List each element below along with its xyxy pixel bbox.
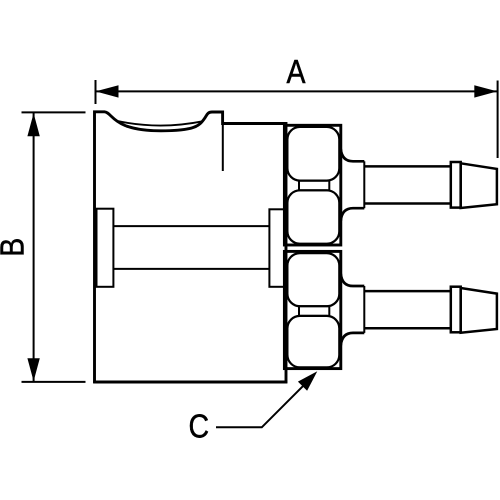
barb cone 2 — [461, 288, 497, 333]
stem 2 top line — [364, 290, 451, 293]
internal channel left counterbore — [97, 209, 114, 287]
svg-text:C: C — [189, 407, 210, 445]
dimension A line — [96, 90, 497, 92]
leader C line — [216, 386, 304, 428]
leader C arrowhead — [298, 371, 317, 391]
dimension B line — [33, 113, 35, 381]
dimension B extension line top — [22, 111, 86, 113]
dimension A arrowhead left — [96, 85, 119, 97]
bore depth line — [222, 125, 224, 171]
hex nut 1 outer rect — [284, 125, 340, 245]
body right edge lower segment — [285, 369, 288, 384]
dimension A arrowhead right — [474, 85, 497, 97]
internal channel bottom line — [113, 268, 269, 270]
body bottom edge — [93, 381, 287, 384]
stem 2 shoulder edge — [363, 286, 365, 333]
hex nut 1 waist — [299, 181, 329, 191]
barb cone 1 — [461, 163, 497, 208]
body outline — [95, 112, 287, 384]
svg-text:B: B — [0, 238, 31, 257]
stem 1 top line — [364, 165, 451, 168]
hex nut 1 lower face — [287, 190, 339, 243]
dimension A extension line left — [95, 80, 97, 104]
stem 1 neck fillet bottom — [341, 208, 365, 221]
stem 2 bottom line — [364, 327, 451, 330]
internal channel top line — [113, 225, 269, 227]
hex nut 2 waist — [299, 306, 329, 316]
barb collar 1 — [451, 162, 461, 208]
stem 1 neck fillet top — [341, 149, 365, 161]
stem 2 neck fillet top — [341, 274, 365, 286]
saddle far edge (thin arc) — [117, 121, 203, 126]
barb collar 2 — [451, 287, 461, 333]
svg-text:A: A — [287, 53, 306, 91]
hex nut 2 lower face — [287, 316, 339, 368]
dimension B arrowhead bottom — [27, 358, 39, 381]
hex nut 2 upper face — [287, 253, 339, 306]
hex nut 1 upper face — [287, 127, 339, 181]
dimension A extension line right — [497, 81, 499, 159]
dimension B arrowhead top — [27, 113, 39, 136]
internal channel right counterbore — [269, 209, 285, 286]
stem 1 bottom line — [364, 202, 451, 205]
stem 1 shoulder edge — [363, 161, 365, 208]
hex nut 2 outer rect — [284, 251, 340, 368]
dimension B extension line bottom — [22, 381, 86, 383]
stem 2 neck fillet bottom — [341, 333, 365, 346]
